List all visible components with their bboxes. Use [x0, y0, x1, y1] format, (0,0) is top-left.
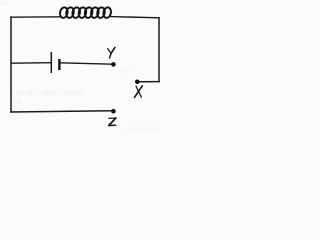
battery short plate [58, 59, 60, 70]
wire top left segment [11, 16, 61, 18]
battery long plate [50, 52, 52, 73]
label Z [109, 118, 116, 126]
node Y dot [111, 62, 116, 67]
node Z dot [111, 109, 116, 114]
wire middle right to Y [61, 63, 112, 64]
wire bottom [11, 111, 111, 112]
inductor coil [59, 7, 112, 19]
svg-text:o n c: o n c [118, 68, 134, 75]
label X [134, 86, 142, 98]
wire top right segment [111, 17, 159, 18]
svg-text:I am te u neott n same: I am te u neott n same [12, 90, 82, 97]
wire jog to X [139, 81, 159, 83]
svg-text:c wr te d un: c wr te d un [124, 126, 160, 132]
label Y [108, 48, 115, 58]
wire left vertical [10, 17, 12, 112]
wire middle left [11, 62, 51, 65]
node X dot [135, 80, 140, 85]
wire right vertical [158, 18, 160, 82]
svg-text:im: im [1, 1, 7, 7]
faint bleed-through marks [1, 1, 160, 133]
svg-text:t ar: t ar [13, 99, 22, 105]
